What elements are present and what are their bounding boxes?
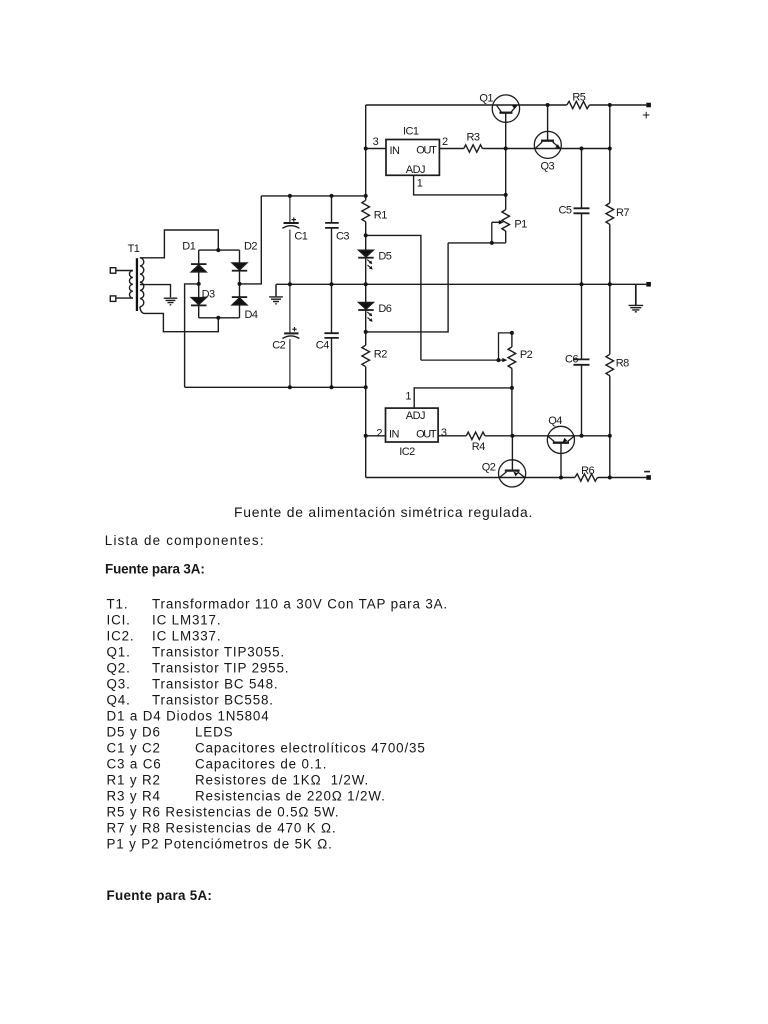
svg-text:Fuente para 5A:: Fuente para 5A:: [107, 888, 213, 903]
svg-text:D1 a D4 Diodos 1N5804: D1 a D4 Diodos 1N5804: [107, 709, 270, 724]
svg-text:D1: D1: [182, 240, 195, 252]
junction P2-top: [510, 331, 514, 335]
junction Q4-base/neg-bus: [559, 476, 563, 480]
svg-text:Q3: Q3: [541, 161, 555, 173]
wire IC1 OUT to R3 to Q3 y=148.5: [439, 148, 609, 150]
capacitor C2 electrolytic: [272, 284, 299, 387]
svg-text:IC2.IC LM337.: IC2.IC LM337.: [107, 629, 222, 644]
svg-text:Fuente de alimentación simétri: Fuente de alimentación simétrica regulad…: [234, 504, 533, 520]
LED D5: [358, 250, 392, 269]
junction P2-wiper: [497, 358, 501, 362]
transistor Q1 TIP3055: [479, 92, 519, 122]
ground center 0V left end: [269, 284, 283, 304]
resistor R6: [575, 465, 598, 481]
svg-text:R7 y R8 Resistencias de 470 K: R7 y R8 Resistencias de 470 K Ω.: [107, 821, 337, 836]
wire IC2 ADJ pin 1: [414, 388, 512, 408]
diode D4: [232, 284, 258, 321]
svg-text:R6: R6: [581, 465, 594, 477]
svg-text:P2: P2: [520, 349, 533, 361]
wire Q3 base x=547.6: [547, 105, 549, 141]
resistor R4: [466, 432, 485, 453]
junction R7-top: [608, 103, 612, 107]
svg-text:R1 y R2Resistores de 1KΩ 1/2W: R1 y R2Resistores de 1KΩ 1/2W.: [107, 773, 370, 788]
wire left vertical rail x=365.7: [365, 105, 367, 478]
svg-text:+: +: [642, 108, 650, 123]
capacitor C3: [325, 196, 349, 284]
diode D3: [191, 284, 215, 318]
junction R7/Q3-emitter: [608, 147, 612, 151]
svg-text:IC1: IC1: [403, 126, 419, 138]
wire Q1 base to P1 top: [505, 113, 507, 210]
junction rail/cap-bottom-bus: [364, 385, 368, 389]
diode D1: [182, 240, 206, 284]
svg-text:Q2.Transistor TIP 2955.: Q2.Transistor TIP 2955.: [107, 661, 290, 676]
svg-text:OUT: OUT: [416, 144, 437, 156]
junction C4-bottom: [330, 385, 334, 389]
junction C5-top: [580, 147, 584, 151]
terminal negative output: [644, 472, 651, 480]
svg-text:ICI.IC LM317.: ICI.IC LM317.: [107, 613, 222, 628]
svg-text:P1: P1: [514, 218, 527, 230]
junction bridge-left: [197, 282, 201, 286]
junction P1-wiper-bottom: [490, 241, 494, 245]
IC regulator U IC1 LM317: [373, 126, 448, 190]
junction Q2-base/R4: [510, 434, 514, 438]
svg-text:D2: D2: [244, 240, 257, 252]
transistor Q2 TIP2955: [482, 460, 526, 487]
svg-text:Q1.Transistor TIP3055.: Q1.Transistor TIP3055.: [107, 645, 286, 660]
capacitor C6: [565, 284, 590, 436]
svg-text:1: 1: [417, 178, 423, 190]
wire bridge positive riser: [240, 196, 262, 284]
svg-text:T1.Transformador 110 a 30V Con: T1.Transformador 110 a 30V Con TAP para …: [107, 597, 449, 612]
wire Q4 base: [560, 443, 562, 478]
potentiometer P2: [499, 333, 533, 436]
svg-text:R1: R1: [374, 210, 387, 222]
wire center 0V line y=284.3: [276, 283, 646, 285]
junction C5-bottom-0V: [580, 282, 584, 286]
svg-text:R5 y R6 Resistencias de 0.5Ω 5: R5 y R6 Resistencias de 0.5Ω 5W.: [107, 805, 340, 820]
wire top positive bus y=105: [366, 104, 647, 106]
svg-text:C2: C2: [272, 340, 285, 352]
junction Q1-base/IC1-ADJ: [504, 193, 508, 197]
wire IC2 OUT to R4 to Q4 y=435.8: [438, 435, 610, 437]
svg-text:D4: D4: [245, 309, 258, 321]
svg-text:C1: C1: [294, 231, 307, 243]
resistor R8: [606, 284, 629, 477]
junction rail/0V-line: [364, 282, 368, 286]
junction bridge-bottom: [216, 316, 220, 320]
capacitor C5: [559, 149, 590, 285]
svg-text:R5: R5: [572, 92, 585, 104]
junction C2-top-0V: [288, 282, 292, 286]
terminal positive output: [642, 103, 651, 123]
svg-text:2: 2: [376, 427, 382, 439]
diode D2: [232, 240, 258, 284]
junction P2-bottom/IC2-ADJ: [510, 386, 514, 390]
junction rail/D6-R2: [364, 330, 368, 334]
wire D6 junction to riser x=448.1: [366, 243, 448, 332]
IC regulator U IC2 LM337: [376, 391, 446, 459]
junction bridge-top-AC: [216, 248, 220, 252]
svg-text:ADJ: ADJ: [406, 410, 425, 422]
wire secondary top to bridge: [140, 230, 218, 258]
resistor R1: [362, 200, 387, 222]
svg-text:Q3.Transistor BC 548.: Q3.Transistor BC 548.: [107, 677, 279, 692]
ground right 0V: [629, 284, 644, 312]
svg-text:C4: C4: [316, 340, 329, 352]
svg-text:R7: R7: [616, 207, 629, 219]
wire secondary bottom to bridge: [140, 307, 218, 332]
svg-text:2: 2: [442, 136, 448, 148]
svg-text:Q1: Q1: [479, 92, 493, 104]
wire P2 wiper feed y=360.1: [421, 359, 499, 361]
TEXT_START: [105, 504, 533, 903]
wire P1 bottom y=242.9: [448, 242, 506, 244]
svg-text:Q4: Q4: [548, 415, 562, 427]
svg-text:1: 1: [405, 391, 411, 403]
wire IC1 ADJ pin 1: [414, 175, 506, 195]
wire capacitor top bus y=195.9: [261, 195, 365, 197]
junction rail/IC2-IN: [364, 434, 368, 438]
svg-text:P1 y P2 Potenciómetros de 5K Ω: P1 y P2 Potenciómetros de 5K Ω.: [107, 837, 333, 852]
svg-text:3: 3: [373, 136, 379, 148]
svg-text:C1 y C2Capacitores electrolíti: C1 y C2Capacitores electrolíticos 4700/3…: [107, 741, 426, 756]
junction Q3-base-tap: [546, 103, 550, 107]
svg-text:R8: R8: [616, 358, 629, 370]
svg-text:C3 a C6Capacitores de 0.1.: C3 a C6Capacitores de 0.1.: [107, 757, 328, 772]
svg-text:C5: C5: [559, 205, 572, 217]
transformer T1: [110, 243, 143, 311]
wire center tap to ground: [140, 285, 171, 298]
junction rail/cap-top-bus: [364, 194, 368, 198]
svg-text:Fuente para 3A:: Fuente para 3A:: [105, 561, 205, 576]
LED D6: [358, 303, 392, 322]
svg-text:IC2: IC2: [399, 446, 415, 458]
junction R8/Q4-line: [608, 434, 612, 438]
svg-text:Q2: Q2: [482, 462, 496, 474]
svg-text:C3: C3: [336, 231, 349, 243]
svg-text:R4: R4: [472, 441, 485, 453]
wire bridge left vertex feed: [185, 284, 199, 387]
junction C4-top-0V: [330, 282, 334, 286]
svg-text:3: 3: [441, 427, 447, 439]
svg-text:Lista de componentes:: Lista de componentes:: [105, 533, 265, 548]
junction C2-bottom: [288, 385, 292, 389]
svg-text:ADJ: ADJ: [406, 164, 425, 176]
bridge top wire: [199, 249, 240, 251]
transistor Q4 BC558: [547, 415, 574, 454]
resistor R5: [567, 92, 590, 109]
svg-text:D5 y D6LEDS: D5 y D6LEDS: [107, 725, 234, 740]
svg-text:Q4.Transistor BC558.: Q4.Transistor BC558.: [107, 693, 274, 708]
svg-text:OUT: OUT: [416, 428, 437, 440]
svg-text:R2: R2: [374, 349, 387, 361]
svg-text:R3: R3: [467, 132, 480, 144]
capacitor C1 electrolytic: [282, 196, 307, 284]
svg-text:D5: D5: [378, 251, 391, 263]
resistor R3: [464, 132, 483, 153]
terminal 0V output: [646, 282, 651, 287]
wire IC1 IN from rail y=148.5: [366, 148, 386, 150]
wire Q2 base: [511, 436, 513, 471]
wire IC2 IN from rail y=435.8: [366, 435, 386, 437]
junction R8-top-0V: [608, 282, 612, 286]
svg-text:IN: IN: [390, 145, 401, 157]
junction C6-bottom: [580, 434, 584, 438]
bridge bottom wire: [199, 317, 240, 319]
potentiometer P1: [492, 210, 527, 243]
junction rail/IC1-IN: [364, 147, 368, 151]
resistor R2: [362, 345, 387, 367]
capacitor C4: [316, 284, 339, 387]
ground transformer center tap: [164, 298, 178, 305]
junction R8-bottom/neg-bus: [608, 476, 612, 480]
svg-text:D6: D6: [378, 303, 391, 315]
transistor Q3 BC548: [534, 131, 561, 172]
svg-text:D3: D3: [202, 288, 215, 300]
svg-text:T1: T1: [128, 243, 140, 255]
junction bridge-right: [238, 282, 242, 286]
svg-text:R3 y R4Resistencias de 220Ω 1/: R3 y R4Resistencias de 220Ω 1/2W.: [107, 789, 386, 804]
wire capacitor bottom bus y=387.3: [185, 386, 366, 388]
junction Q1-base/R3: [504, 147, 508, 151]
wire bottom negative bus y=477.5: [366, 477, 647, 479]
junction C1-top: [288, 194, 292, 198]
junction C3-top: [330, 194, 334, 198]
svg-text:IN: IN: [389, 428, 400, 440]
resistor R7: [606, 105, 629, 284]
junction rail/R1-D5: [364, 233, 368, 237]
svg-text:C6: C6: [565, 354, 578, 366]
wire rail to P2 feed riser: [366, 235, 421, 360]
